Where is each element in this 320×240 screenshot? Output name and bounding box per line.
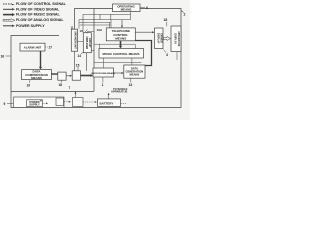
svg-text:AMPLIFIER: AMPLIFIER: [85, 36, 88, 49]
svg-text:16: 16: [1, 55, 5, 59]
svg-text:FLOW OF MUSIC SIGNAL: FLOW OF MUSIC SIGNAL: [16, 13, 61, 17]
svg-text:9: 9: [4, 102, 6, 106]
svg-text:APPARATUS: APPARATUS: [177, 31, 180, 47]
svg-text:DISPLAY: DISPLAY: [156, 33, 159, 44]
svg-text:SPEAKER UNIT: SPEAKER UNIT: [74, 31, 77, 49]
svg-text:10: 10: [80, 29, 84, 33]
svg-text:3: 3: [166, 53, 168, 57]
svg-text:18: 18: [59, 83, 63, 87]
svg-text:1: 1: [102, 83, 104, 87]
svg-text:FLOW OF ANALOG SIGNAL: FLOW OF ANALOG SIGNAL: [16, 18, 64, 22]
svg-text:CIRCUIT: CIRCUIT: [88, 38, 91, 48]
svg-text:17: 17: [49, 46, 53, 50]
svg-text:FLOW OF VIDEO SIGNAL: FLOW OF VIDEO SIGNAL: [16, 7, 60, 11]
svg-text:13: 13: [129, 83, 133, 87]
svg-text:MEANS: MEANS: [121, 8, 132, 12]
svg-text:MICROPHONE MEANS: MICROPHONE MEANS: [92, 72, 116, 75]
svg-text:13A: 13A: [97, 28, 103, 32]
svg-text:FLOW OF CONTROL SIGNAL: FLOW OF CONTROL SIGNAL: [16, 2, 67, 6]
svg-text:7: 7: [69, 86, 71, 90]
svg-text:14: 14: [78, 54, 82, 58]
svg-text:BATTERY: BATTERY: [100, 101, 114, 105]
svg-text:11: 11: [71, 26, 74, 30]
svg-text:DRIVER: DRIVER: [160, 33, 163, 43]
svg-text:MEANS: MEANS: [130, 73, 140, 77]
svg-text:18: 18: [164, 18, 168, 22]
svg-text:ALARM UNIT: ALARM UNIT: [24, 46, 42, 50]
svg-text:SUPPLY: SUPPLY: [29, 103, 40, 107]
svg-text:MUSIC CONTROL MEANS: MUSIC CONTROL MEANS: [103, 52, 140, 56]
svg-text:DISPLAY: DISPLAY: [173, 33, 176, 44]
svg-text:APPARATUS: APPARATUS: [111, 90, 128, 94]
svg-text:POWER SUPPLY: POWER SUPPLY: [16, 24, 45, 28]
svg-text:MEANS: MEANS: [31, 76, 42, 80]
svg-text:15: 15: [76, 63, 80, 67]
svg-text:19: 19: [27, 83, 31, 87]
svg-text:6: 6: [146, 6, 148, 10]
svg-text:MEANS: MEANS: [115, 36, 126, 40]
svg-text:2: 2: [184, 13, 186, 17]
